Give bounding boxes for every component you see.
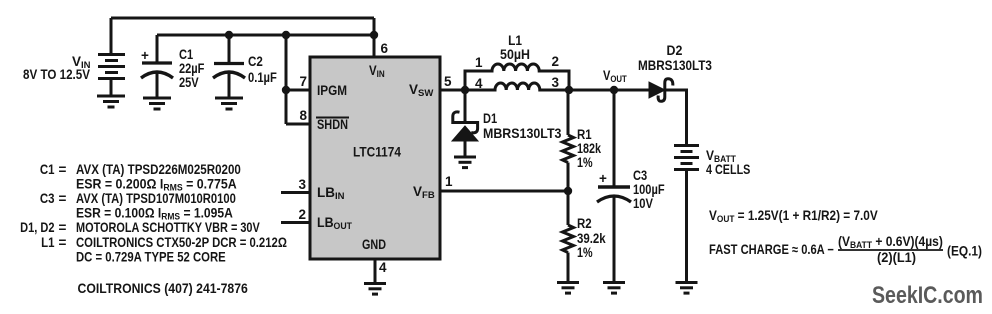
wire pin5 to L1	[440, 89, 465, 92]
capacitor C2	[213, 35, 245, 98]
logo SeekIC.com	[872, 281, 983, 308]
svg-text:5: 5	[444, 74, 452, 89]
node dot divider	[564, 187, 572, 195]
svg-text:1%: 1%	[577, 245, 593, 260]
parts list line D1 D2	[20, 220, 55, 235]
svg-text:GND: GND	[362, 237, 386, 252]
svg-text:3: 3	[552, 75, 560, 90]
wire second rail C1 to pin6 column	[157, 34, 374, 37]
equation denominator	[877, 250, 916, 265]
svg-text:2: 2	[552, 54, 560, 69]
wire pin7	[286, 89, 310, 92]
svg-text:IPGM: IPGM	[317, 83, 347, 98]
node dot VOUT	[610, 86, 618, 94]
inductor L1 top winding	[465, 64, 569, 90]
svg-text:1%: 1%	[577, 155, 593, 170]
svg-text:C2: C2	[248, 54, 263, 69]
svg-text:R2: R2	[577, 216, 592, 231]
svg-text:10V: 10V	[633, 196, 654, 211]
svg-text:(EQ.1): (EQ.1)	[947, 243, 982, 259]
wire vsw node to D2	[569, 89, 649, 92]
svg-text:=: =	[59, 162, 67, 177]
wire pin8	[286, 123, 310, 126]
svg-text:L1: L1	[41, 235, 54, 250]
label 4 CELLS	[706, 162, 750, 177]
label D2 MBRS130LT3	[638, 58, 712, 73]
svg-text:3: 3	[298, 177, 306, 192]
svg-text:C3: C3	[40, 191, 55, 206]
resistor R2	[563, 191, 574, 283]
parts list line DC	[76, 250, 226, 265]
svg-text:D1: D1	[483, 111, 497, 126]
svg-text:50µH: 50µH	[500, 47, 530, 63]
diode D1 triangle	[452, 126, 478, 141]
svg-text:C1: C1	[40, 162, 55, 177]
node dot pin7	[282, 86, 290, 94]
ground chip GND	[364, 284, 386, 295]
parts list line L1	[41, 235, 54, 250]
diode D1 schottky bar	[453, 112, 478, 133]
ground R2	[557, 283, 579, 294]
equation EQ.1	[947, 243, 982, 259]
svg-text:7: 7	[299, 74, 307, 89]
resistor R1	[563, 90, 574, 191]
svg-text:(2)(L1): (2)(L1)	[877, 250, 916, 265]
svg-text:LTC1174: LTC1174	[353, 144, 401, 160]
wire pin4	[374, 259, 377, 283]
svg-text:8V TO 12.5V: 8V TO 12.5V	[23, 67, 91, 82]
diode D2 triangle	[649, 82, 665, 98]
overline SHDN	[316, 117, 349, 119]
capacitor C1	[141, 35, 173, 98]
ground C1	[143, 98, 171, 109]
equation VOUT	[709, 208, 878, 224]
label V_IN	[72, 54, 91, 71]
svg-text:C3: C3	[633, 168, 647, 183]
svg-text:C1: C1	[179, 47, 193, 62]
ground V_BATT	[676, 283, 698, 294]
wire D2 to battery	[666, 90, 687, 145]
svg-text:=: =	[59, 191, 67, 206]
node dot L1 left	[461, 86, 469, 94]
inductor L1 bottom winding	[465, 83, 569, 90]
svg-text:SHDN: SHDN	[317, 117, 348, 132]
node dot pin6/rail	[370, 31, 378, 39]
battery V_BATT	[674, 146, 699, 283]
svg-text:6: 6	[381, 41, 389, 56]
wire pin1 VFB to divider	[440, 190, 568, 193]
pin 3 stub	[281, 191, 310, 194]
svg-text:+: +	[599, 171, 607, 186]
svg-text:=: =	[59, 220, 67, 235]
ground C3	[603, 283, 625, 294]
parts list line ESR1	[76, 176, 237, 193]
svg-text:8: 8	[299, 108, 307, 123]
svg-text:D2: D2	[667, 43, 683, 59]
wire shdn column vertical	[285, 35, 288, 124]
svg-text:FAST CHARGE ≈ 0.6A −: FAST CHARGE ≈ 0.6A −	[709, 242, 834, 257]
svg-text:4: 4	[475, 76, 483, 91]
svg-text:COILTRONICS CTX50-2P DCR = 0.2: COILTRONICS CTX50-2P DCR = 0.212Ω	[76, 235, 287, 250]
svg-text:MOTOROLA SCHOTTKY VBR = 30V: MOTOROLA SCHOTTKY VBR = 30V	[76, 220, 261, 235]
parts list line ESR2	[76, 205, 233, 222]
svg-text:DC = 0.729A TYPE 52 CORE: DC = 0.729A TYPE 52 CORE	[76, 250, 226, 265]
parts list line C1	[40, 162, 55, 177]
wire battery top lead	[110, 18, 113, 53]
svg-text:2: 2	[298, 207, 306, 222]
svg-text:0.1µF: 0.1µF	[248, 70, 277, 85]
svg-text:4: 4	[379, 260, 387, 275]
label 8V TO 12.5V	[23, 67, 91, 82]
equation FAST CHARGE	[709, 242, 834, 257]
node dot C2/rail	[225, 31, 233, 39]
svg-text:4 CELLS: 4 CELLS	[706, 162, 750, 177]
svg-text:AVX (TA) TPSD226M025R0200: AVX (TA) TPSD226M025R0200	[76, 162, 241, 177]
parts list line C3	[40, 191, 55, 206]
svg-text:100µF: 100µF	[633, 182, 665, 197]
svg-text:=: =	[59, 235, 67, 250]
op-amp U1 LTC1174 body	[310, 57, 440, 259]
svg-text:22µF: 22µF	[179, 61, 205, 76]
label V_BATT	[706, 147, 736, 164]
node dot L1 right	[565, 86, 573, 94]
parts list line phone	[78, 280, 248, 296]
wire pin6 vertical	[373, 18, 376, 57]
svg-text:VOUT = 1.25V(1 + R1/R2) = 7.0V: VOUT = 1.25V(1 + R1/R2) = 7.0V	[709, 208, 878, 224]
svg-text:+: +	[141, 48, 149, 63]
node dot shdn column/rail	[282, 31, 290, 39]
equation numerator	[838, 233, 943, 250]
svg-text:25V: 25V	[179, 75, 199, 90]
svg-text:MBRS130LT3: MBRS130LT3	[483, 126, 561, 142]
svg-text:COILTRONICS (407) 241-7876: COILTRONICS (407) 241-7876	[78, 280, 248, 296]
equation fraction bar	[838, 249, 943, 251]
diode D1 lower lead	[464, 141, 467, 157]
svg-text:MBRS130LT3: MBRS130LT3	[638, 58, 712, 73]
ground C2	[215, 98, 243, 109]
svg-text:SeekIC.com: SeekIC.com	[872, 281, 983, 308]
wire top rail from battery to pin6	[111, 17, 374, 20]
diode D1 lead	[464, 90, 467, 122]
capacitor C3	[597, 90, 631, 283]
label D1 MBRS130LT3	[483, 126, 561, 142]
svg-text:1: 1	[475, 55, 483, 70]
diode D2 schottky bar	[658, 79, 673, 102]
battery V_IN	[98, 55, 125, 97]
svg-text:1: 1	[445, 174, 453, 189]
svg-text:D1, D2: D1, D2	[20, 220, 55, 235]
ground battery V_IN	[97, 96, 125, 107]
ground D1	[454, 157, 476, 168]
pin 2 stub	[281, 221, 310, 224]
